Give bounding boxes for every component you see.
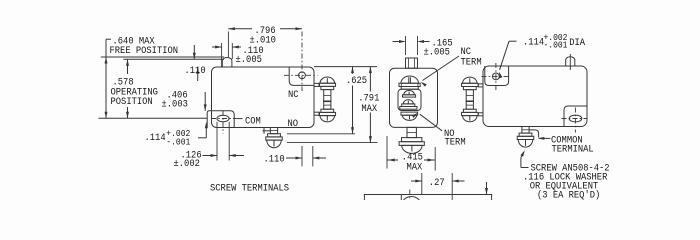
svg-text:TERM: TERM xyxy=(461,56,482,68)
svg-text:POSITION: POSITION xyxy=(111,96,153,108)
svg-text:.625: .625 xyxy=(346,75,367,87)
svg-text:TERMINAL: TERMINAL xyxy=(552,143,594,155)
svg-text:±.003: ±.003 xyxy=(162,98,189,110)
svg-text:MAX: MAX xyxy=(407,161,423,173)
svg-text:(3 EA REQ'D): (3 EA REQ'D) xyxy=(537,189,600,200)
svg-text:MAX: MAX xyxy=(361,103,377,115)
svg-text:±.002: ±.002 xyxy=(174,158,201,170)
svg-text:.27: .27 xyxy=(429,176,445,188)
svg-text:.114: .114 xyxy=(523,36,544,48)
svg-text:DIA: DIA xyxy=(569,36,585,48)
svg-text:±.005: ±.005 xyxy=(424,46,451,58)
svg-text:.110: .110 xyxy=(185,64,206,76)
svg-text:SCREW TERMINALS: SCREW TERMINALS xyxy=(210,182,289,194)
svg-text:NO: NO xyxy=(288,118,299,130)
svg-text:TERM: TERM xyxy=(445,136,466,148)
svg-text:±.005: ±.005 xyxy=(236,54,263,66)
svg-text:-.001: -.001 xyxy=(166,137,190,148)
svg-text:FREE POSITION: FREE POSITION xyxy=(110,45,179,57)
svg-text:-.001: -.001 xyxy=(544,40,568,51)
svg-text:NC: NC xyxy=(288,89,299,101)
svg-text:COM: COM xyxy=(245,115,261,127)
svg-text:.114: .114 xyxy=(145,131,166,143)
svg-text:.110: .110 xyxy=(264,153,285,165)
